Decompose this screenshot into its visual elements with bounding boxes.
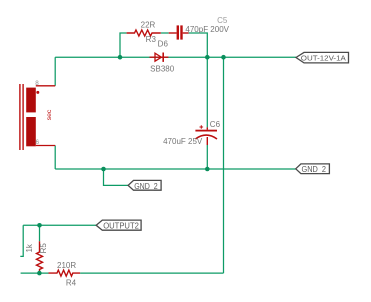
transformer secondary winding upper <box>26 88 36 113</box>
wire C6 branch lower <box>206 145 208 169</box>
svg-text:R4: R4 <box>66 278 77 287</box>
svg-text:8: 8 <box>35 80 39 87</box>
svg-text:6: 6 <box>36 139 40 146</box>
resistor R3 <box>127 30 161 36</box>
svg-text:SB380: SB380 <box>150 65 175 74</box>
net flag GND_2 left <box>128 180 161 190</box>
svg-text:R5: R5 <box>39 243 48 254</box>
wire feedback vertical from output line down to R4 line <box>223 57 225 273</box>
junction dot at R5 top on OUTPUT2 line <box>37 223 42 228</box>
wire from OUTPUT2 line down to R5 <box>39 225 41 241</box>
wire bottom R4 line right segment <box>80 272 223 274</box>
resistor R5 <box>37 241 43 273</box>
capacitor C6 polarized <box>195 125 217 145</box>
svg-text:R3: R3 <box>146 35 157 44</box>
svg-text:22R: 22R <box>141 20 156 29</box>
wire GND_2 horizontal line <box>55 168 296 170</box>
svg-text:sec: sec <box>46 109 53 120</box>
wire snubber branch left vertical <box>120 33 127 57</box>
wire bottom R4 line left segment <box>21 272 49 274</box>
svg-text:C5: C5 <box>217 16 228 25</box>
wire from transformer pin 8 up to top line <box>54 57 56 86</box>
junction dot at snubber left on top line <box>118 55 123 60</box>
net flag GND_2 right <box>296 164 330 174</box>
svg-text:GND_2: GND_2 <box>302 165 327 174</box>
svg-text:470uF 25V: 470uF 25V <box>163 137 203 146</box>
transformer TR core line 2 <box>22 84 23 150</box>
transformer polarity dot <box>36 91 39 94</box>
junction dot at feedback on top line <box>221 55 226 60</box>
resistor R4 <box>49 270 81 276</box>
wire from C5 right to top line <box>189 33 208 57</box>
transformer secondary winding lower <box>26 117 36 146</box>
capacitor C5 <box>169 25 189 39</box>
svg-text:C6: C6 <box>210 120 221 129</box>
svg-text:OUT-12V-1A: OUT-12V-1A <box>301 53 347 62</box>
junction dot at C6 bottom on GND line <box>205 167 210 172</box>
svg-text:470pF 200V: 470pF 200V <box>185 25 229 34</box>
transformer pin 6 line <box>36 145 55 147</box>
net flag OUTPUT2 <box>96 220 141 231</box>
junction dot at R5 bottom on R4 line <box>37 271 42 276</box>
transformer TR core line 1 <box>19 84 20 150</box>
svg-text:D6: D6 <box>158 39 169 48</box>
junction dot at GND_2 flag drop <box>101 167 106 172</box>
svg-text:OUTPUT2: OUTPUT2 <box>103 222 139 231</box>
wire GND_2 left flag drop <box>104 169 129 185</box>
wire from transformer pin 6 down to GND_2 line <box>54 146 56 170</box>
wire top main line <box>55 56 296 58</box>
svg-text:210R: 210R <box>57 261 76 270</box>
svg-text:1k: 1k <box>25 243 34 252</box>
wire left stub below OUTPUT2 corner <box>20 225 23 256</box>
wire OUTPUT2 line <box>23 224 96 226</box>
net flag OUT-12V-1A <box>296 52 349 63</box>
transformer pin 8 line <box>36 85 55 87</box>
svg-text:GND_2: GND_2 <box>134 182 158 191</box>
wire between R3 and C5 <box>161 32 169 34</box>
wire C6 branch upper <box>206 57 208 127</box>
junction dot at C6 top on top line <box>205 55 210 60</box>
diode D6 <box>150 53 169 62</box>
